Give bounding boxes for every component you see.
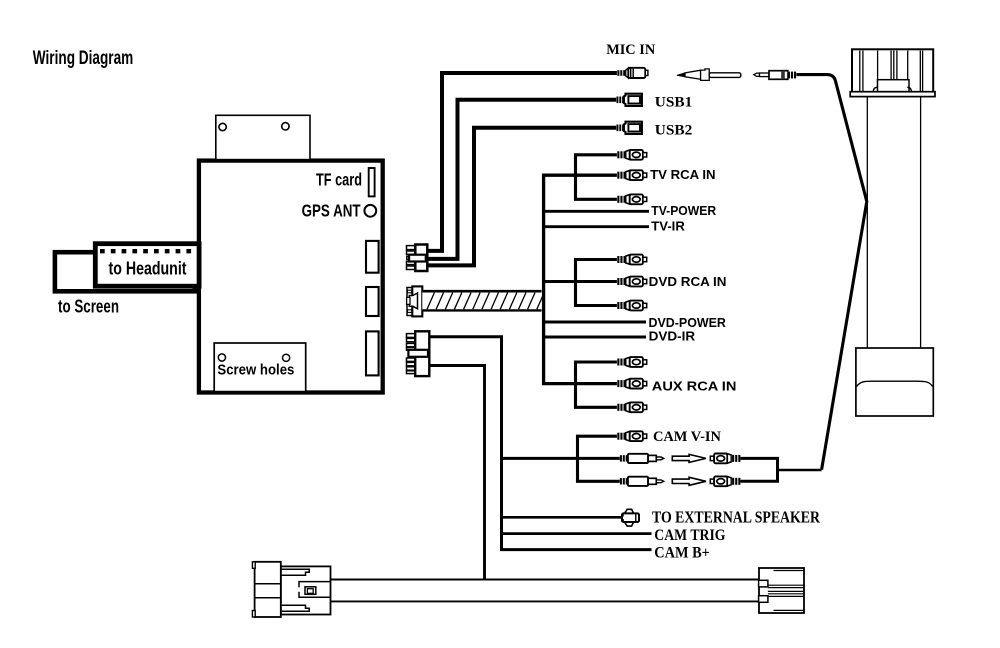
- TV RCA jack middle: [617, 170, 647, 180]
- USB1 female jack: [616, 94, 642, 106]
- label CAM B+: [654, 545, 710, 562]
- label DVD-POWER: [649, 316, 726, 330]
- GPS ANT jack + label: [302, 200, 377, 220]
- svg-text:TV-IR: TV-IR: [651, 220, 685, 234]
- label USB1: [655, 95, 693, 111]
- DVD RCA jack top: [617, 255, 647, 265]
- svg-text:CAM B+: CAM B+: [654, 545, 710, 562]
- label DVD-IR: [649, 330, 696, 344]
- svg-text:Wiring Diagram: Wiring Diagram: [33, 48, 134, 69]
- CAM right bracket + link to mic cable: [778, 457, 822, 481]
- AUX RCA jack bottom: [617, 402, 647, 412]
- socket S2 on box right edge: [366, 287, 379, 316]
- AUX RCA jack middle: [617, 379, 647, 389]
- CAM plug row2 (3.5mm plug): [620, 454, 664, 463]
- to Headunit connector box with dashed strip + label: [95, 244, 199, 287]
- wire: plug P1 to USB1 jack: [427, 100, 616, 259]
- label TV RCA IN: [650, 167, 716, 182]
- wire: P2 to CAM branch vertical (speaker/trig/B+): [429, 337, 651, 550]
- svg-text:MIC IN: MIC IN: [606, 42, 655, 58]
- label USB2: [655, 122, 693, 138]
- title "Wiring Diagram": [33, 48, 134, 69]
- TV RCA jack bottom: [617, 194, 647, 204]
- label CAM TRIG: [654, 527, 726, 544]
- control box (main unit): [199, 161, 383, 393]
- DVD-IR wire: [544, 336, 646, 339]
- svg-text:to Headunit: to Headunit: [109, 258, 187, 279]
- antenna base block: [856, 348, 933, 416]
- label DVD RCA IN: [649, 274, 727, 289]
- CAM V-IN bracket wire: [578, 436, 621, 481]
- DVD RCA bracket wire: [576, 260, 617, 306]
- arrow row2: [672, 454, 706, 462]
- svg-text:USB2: USB2: [655, 122, 693, 138]
- svg-text:CAM TRIG: CAM TRIG: [654, 527, 726, 544]
- shielded cable connector (at socket S2): [407, 286, 423, 316]
- DVD middle feed wire: [544, 280, 617, 283]
- main bus wire (bends right at top into TV row, bottom into AUX row): [544, 175, 617, 383]
- RCA jack right row2 + wire: [710, 454, 779, 464]
- svg-text:AUX RCA IN: AUX RCA IN: [652, 379, 737, 394]
- TV-POWER wire: [544, 210, 649, 213]
- mic 3.5mm male plug with cable to antenna side: [754, 71, 867, 470]
- RCA jack right row3 + wire: [710, 476, 779, 486]
- DVD RCA jack middle: [617, 277, 647, 287]
- mounting tab with two holes: [216, 115, 310, 159]
- bottom cable (two conductors): [331, 580, 760, 602]
- shielded (hatched) cable: [422, 291, 544, 310]
- TF card slot + label: [316, 168, 375, 196]
- antenna mast body: [867, 97, 920, 348]
- svg-text:USB1: USB1: [655, 95, 693, 111]
- wire: plug P1 to MIC IN jack: [427, 73, 617, 251]
- svg-text:TV RCA IN: TV RCA IN: [650, 167, 716, 182]
- MIC IN female jack: [617, 68, 648, 78]
- label TO EXTERNAL SPEAKER: [652, 507, 821, 526]
- AUX RCA bracket wire: [576, 362, 617, 407]
- bottom-left connector: [252, 562, 330, 617]
- wire: P2 to bottom cable: [429, 366, 484, 579]
- svg-text:DVD RCA IN: DVD RCA IN: [649, 274, 727, 289]
- TV-IR wire: [544, 225, 649, 228]
- DVD-POWER wire: [544, 321, 646, 324]
- label MIC IN: [606, 42, 655, 58]
- svg-text:TV-POWER: TV-POWER: [651, 204, 716, 218]
- svg-text:Screw holes: Screw holes: [217, 362, 294, 379]
- CAM plug row3 (3.5mm plug): [620, 477, 664, 486]
- label TV-POWER: [651, 204, 716, 218]
- to Screen connector box + label: [55, 252, 195, 316]
- speaker connector: [621, 509, 639, 526]
- microphone needle plug (points left): [677, 69, 741, 81]
- wire: plug P1 to USB2 jack: [427, 128, 616, 266]
- screw holes plate + label: [214, 343, 306, 392]
- antenna connector head: [850, 49, 935, 96]
- CAM TRIG wire: [502, 532, 652, 535]
- AUX RCA jack top: [617, 357, 647, 367]
- TV RCA bracket wire: [576, 155, 617, 200]
- DVD RCA jack bottom: [617, 301, 647, 311]
- socket S3 on box right edge: [366, 331, 379, 375]
- svg-text:TF card: TF card: [316, 169, 362, 189]
- TO EXTERNAL SPEAKER wire: [502, 516, 623, 519]
- svg-text:CAM V-IN: CAM V-IN: [653, 429, 721, 445]
- connector P1 (3-wire plug at socket S1): [407, 245, 428, 272]
- svg-text:TO EXTERNAL SPEAKER: TO EXTERNAL SPEAKER: [652, 507, 821, 526]
- socket S1 on box right edge: [366, 241, 379, 273]
- TV RCA jack top: [617, 150, 647, 160]
- CAM V-IN RCA jack: [617, 431, 647, 441]
- svg-text:DVD-IR: DVD-IR: [649, 330, 696, 344]
- arrow row3: [672, 477, 706, 485]
- bottom-right connector: [759, 568, 804, 613]
- USB2 female jack: [616, 122, 642, 134]
- svg-text:DVD-POWER: DVD-POWER: [649, 316, 726, 330]
- connector P2 (12-pin plug at socket S3): [407, 331, 430, 376]
- CAM row2 feed wire: [502, 457, 621, 460]
- label TV-IR: [651, 220, 685, 234]
- label CAM V-IN: [653, 429, 721, 445]
- svg-text:to Screen: to Screen: [58, 296, 119, 317]
- svg-text:GPS ANT: GPS ANT: [302, 200, 361, 220]
- label AUX RCA IN: [652, 379, 737, 394]
